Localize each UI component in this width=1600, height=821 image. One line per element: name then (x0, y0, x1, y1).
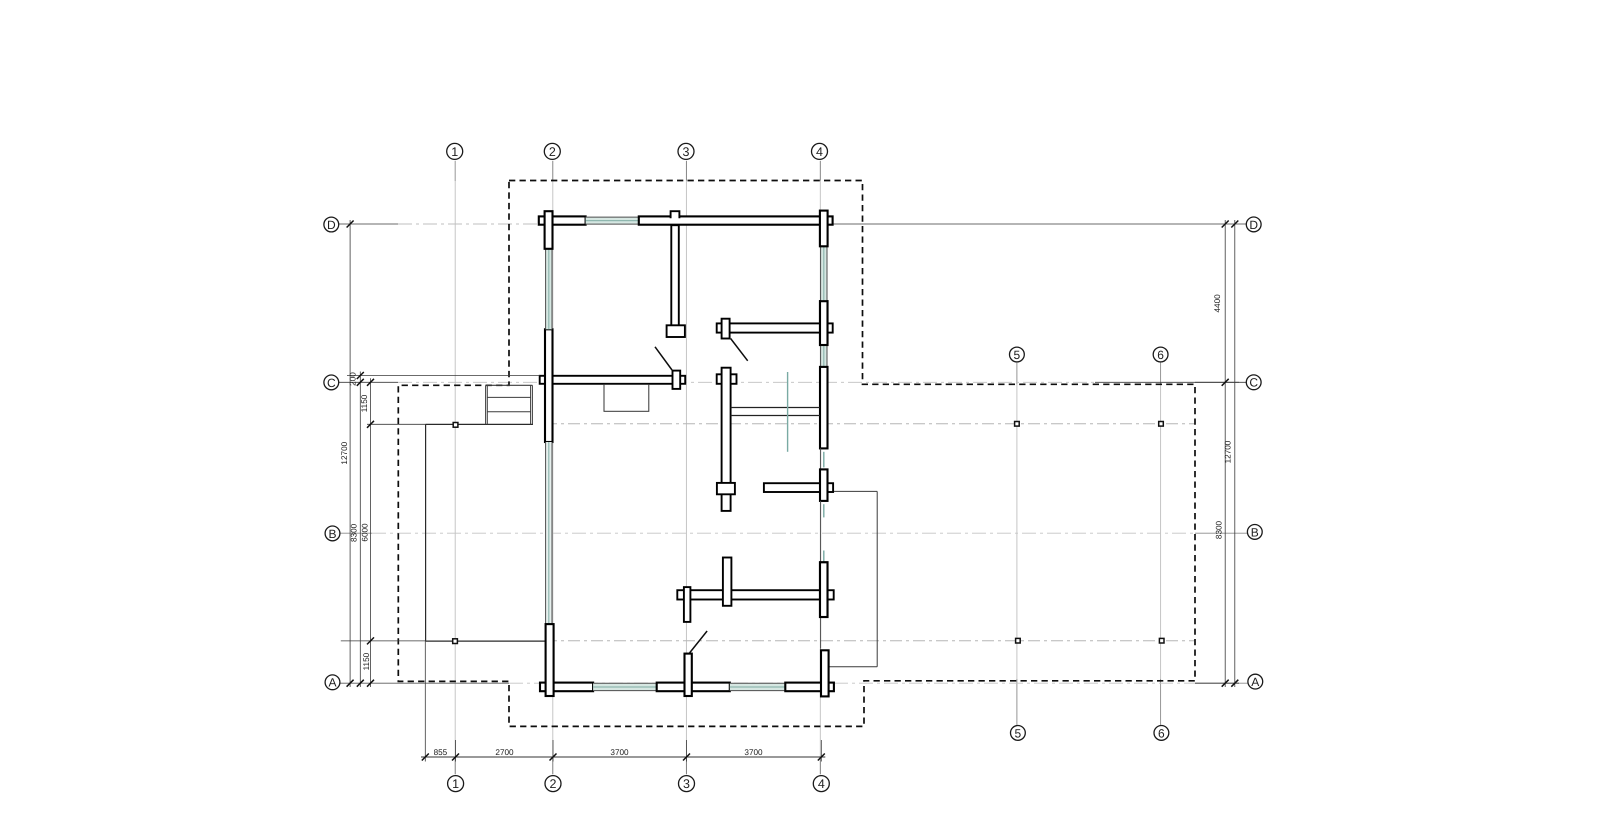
left extension line upper post line (367, 423, 426, 425)
axis 6 vertical (1160, 363, 1162, 725)
svg-text:2700: 2700 (495, 748, 514, 757)
right extension C (1195, 381, 1239, 383)
kitchen cabinet below wall C (604, 384, 649, 411)
svg-text:12700: 12700 (340, 441, 349, 464)
porch left edge (425, 424, 427, 641)
svg-text:3700: 3700 (610, 748, 629, 757)
svg-text:1: 1 (452, 777, 459, 791)
circle 5 bottom (1011, 726, 1026, 741)
svg-text:D: D (1249, 218, 1258, 232)
window right wall upper (820, 246, 827, 301)
svg-text:4: 4 (818, 777, 825, 791)
post at grid6/upper line (1159, 422, 1164, 427)
left dim line 1150/6000/1150 (370, 378, 372, 687)
circle B right (1247, 525, 1262, 540)
corner log end D/2 (545, 211, 553, 249)
circle 3 top (678, 143, 694, 159)
RIGHT PORCH (829, 491, 877, 666)
log end stub above wall D at grid3 (671, 211, 680, 218)
right wall log bar at W1 junction (820, 301, 828, 345)
post at grid5/lower line (1016, 638, 1021, 643)
axis B horizontal (340, 532, 1248, 534)
door swing in wall A (690, 631, 708, 653)
bottom ticks (422, 754, 825, 761)
circle 2 top (544, 143, 560, 159)
circle 4 bottom (813, 776, 829, 792)
svg-text:200: 200 (349, 372, 358, 386)
circle B left (325, 526, 340, 541)
window in wall A right (730, 683, 786, 691)
svg-text:3700: 3700 (744, 748, 763, 757)
opening with glazing lines (821, 501, 824, 562)
svg-text:4400: 4400 (1213, 294, 1222, 313)
interior wall W1 band (horizontal, upper right) (717, 323, 833, 332)
right wall white seg at W4 (820, 562, 828, 617)
circle C right (1246, 375, 1261, 390)
circle D left (324, 217, 339, 232)
svg-text:8300: 8300 (350, 523, 359, 542)
svg-text:6: 6 (1157, 348, 1164, 362)
porch bottom edge (426, 640, 545, 642)
corner log end A/2 (incl window jamb) (546, 624, 554, 696)
svg-text:D: D (327, 218, 336, 232)
door opening right wall (820, 617, 822, 649)
left exterior wall white mid segment (545, 329, 553, 442)
right dim line 12700 (1234, 220, 1236, 687)
teal partition line (787, 372, 789, 452)
circle 6 top (1153, 347, 1168, 362)
svg-text:855: 855 (434, 748, 448, 757)
door swing corridor (731, 339, 748, 361)
svg-text:1150: 1150 (360, 394, 369, 412)
svg-text:4: 4 (816, 145, 823, 159)
svg-text:2: 2 (549, 145, 556, 159)
circle A right (1248, 674, 1263, 689)
corner log end D/4 (820, 211, 828, 247)
left ticks (347, 221, 374, 687)
DIMENSIONS (340, 220, 1239, 762)
INTERIOR FIXTURES (604, 372, 820, 452)
post at grid1 upper (453, 423, 458, 428)
circle 6 bottom (1154, 726, 1169, 741)
circle C left (324, 375, 339, 390)
axis D horizontal (339, 223, 1247, 225)
log end bar at W1 left (722, 319, 730, 339)
porch top edge (426, 423, 533, 425)
svg-text:5: 5 (1015, 726, 1022, 740)
circle 4 top (812, 143, 828, 159)
log end bar at V2 bottom (717, 483, 735, 494)
svg-text:1150: 1150 (362, 652, 371, 670)
circle 2 bottom (545, 776, 561, 792)
axis A horizontal (340, 682, 1248, 684)
right wall white seg through C (820, 367, 828, 449)
interior wall W3 band (horizontal short) (764, 483, 833, 492)
window left wall upper (545, 249, 552, 329)
interior wall grid3 upper (vertical) (671, 225, 679, 331)
wall A band seg 3 with stub past grid4 (785, 683, 834, 692)
post at grid6/lower line (1159, 638, 1164, 643)
svg-text:C: C (1249, 376, 1258, 390)
door jamb log end A/3 (685, 654, 692, 696)
axis 5 vertical (1016, 363, 1018, 725)
left dim line 200/8300 (359, 372, 361, 688)
right wall cross bar at W3 (820, 469, 828, 501)
corner log end A/4 (821, 650, 829, 696)
bench double lines (731, 407, 820, 409)
left dim line 12700 (349, 220, 351, 687)
C-level log stub at V2 (717, 374, 737, 384)
axis 4 vertical (819, 161, 821, 775)
circle 5 top (1010, 347, 1025, 362)
svg-text:1: 1 (451, 145, 458, 159)
circle 1 top (447, 143, 463, 159)
log end bar at wall C right end (673, 371, 681, 389)
log end bar at grid3 wall bottom (667, 325, 685, 337)
svg-text:A: A (328, 676, 336, 690)
interior wall W4 band (horizontal lower) (677, 590, 833, 599)
svg-text:B: B (328, 527, 336, 541)
left extension line wall C top face (347, 375, 540, 377)
axis 2 vertical (552, 161, 554, 775)
log end bar at W4 left (684, 587, 691, 622)
svg-text:12700: 12700 (1224, 440, 1233, 463)
window left wall lower (tall) (545, 442, 552, 624)
log end bar at W4 middle (723, 558, 732, 606)
WALLS (539, 211, 834, 697)
axis 1 vertical (454, 161, 456, 775)
svg-text:C: C (327, 376, 336, 390)
post at grid5/upper line (1015, 422, 1020, 427)
circle 1 bottom (448, 776, 464, 792)
DASHED ROOF OUTLINE (398, 181, 1195, 727)
RIGHT TERRACE POSTS (1015, 422, 1164, 644)
wall C (horizontal interior) band (540, 376, 686, 384)
right wall log bar at W4 junction (820, 562, 828, 617)
opening with glazing line (821, 448, 824, 469)
svg-text:6000: 6000 (361, 523, 370, 542)
post at grid1 lower (453, 639, 458, 644)
bottom extension stubs (455, 740, 457, 762)
wall D band right segment with stub past grid4 (639, 216, 833, 224)
wall A band seg 2 (657, 683, 730, 692)
DOORS (655, 339, 748, 653)
svg-text:A: A (1251, 675, 1259, 689)
circle A left (325, 675, 340, 690)
GRID AXES (339, 161, 1249, 775)
terrace post line upper (545, 423, 1195, 425)
right dim line 4400/8300 (1224, 220, 1226, 687)
LEFT PORCH (426, 423, 545, 644)
window in wall D (586, 217, 639, 224)
window in wall A left (593, 683, 657, 691)
axis 3 vertical (685, 161, 687, 775)
right extension A (1195, 682, 1239, 684)
svg-text:B: B (1251, 525, 1259, 539)
bottom dim line (421, 756, 825, 758)
wall D (top exterior) band left segment (539, 216, 586, 224)
axis C horizontal (339, 381, 1247, 383)
interior wall V2 (vertical) (722, 368, 731, 511)
circle D right (1246, 217, 1261, 232)
circle 3 bottom (679, 776, 695, 792)
GRID CIRCLES (324, 143, 1263, 791)
svg-text:2: 2 (550, 777, 557, 791)
svg-text:3: 3 (683, 145, 690, 159)
left extension line lower post line (341, 640, 426, 642)
svg-text:6: 6 (1158, 726, 1165, 740)
svg-text:5: 5 (1014, 348, 1021, 362)
window right wall 2 (820, 345, 827, 367)
door swing room left-mid (655, 347, 672, 370)
bottom extension from porch edge (424, 641, 426, 761)
right exterior wall white seg below D window (820, 301, 828, 345)
STAIRS (486, 385, 533, 424)
svg-text:3: 3 (683, 777, 690, 791)
right ticks (1222, 221, 1239, 687)
terrace post line lower (545, 640, 1195, 642)
svg-text:8300: 8300 (1214, 520, 1223, 539)
wall A (bottom exterior) band seg 1 (540, 683, 593, 692)
